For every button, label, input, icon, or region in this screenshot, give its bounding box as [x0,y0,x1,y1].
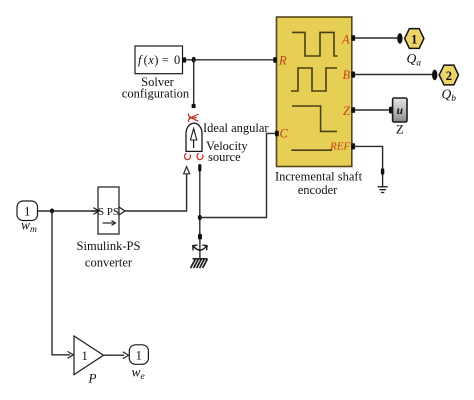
wire A to tag Qa [355,37,397,39]
source bottom right port [198,164,201,171]
svg-text:C: C [280,127,289,141]
wire arrowhead up into source [184,167,190,174]
scope block Z input tab [389,107,393,114]
wire B to tag Qb [355,74,432,76]
svg-text:2: 2 [446,69,452,83]
svg-text:1: 1 [24,204,31,219]
wire arrowhead into gain [68,351,74,358]
source label [203,121,269,164]
svg-text:(: ( [144,53,148,67]
svg-text:converter: converter [85,256,133,270]
wire branch down to gain [52,211,70,355]
wire converter to velocity source signal port [125,174,187,212]
goto tag 1 Qa [405,29,424,69]
output port block we [129,345,148,382]
node junction case net [198,215,202,221]
input port block wm [17,201,38,235]
goto tag 2 Qb [439,65,458,104]
svg-text:A: A [341,33,350,47]
encoder port A [351,35,355,41]
svg-text:Z: Z [343,104,351,118]
svg-text:x: x [147,53,154,67]
encoder port Z [351,107,355,113]
node branch junction [50,208,54,213]
svg-text:u: u [397,105,404,117]
wire REF to ground [355,146,382,168]
solver configuration block U4 [122,46,190,101]
wire Z to scope u [355,109,389,111]
svg-text:configuration: configuration [122,87,190,101]
wire junction to encoder C [200,133,275,217]
tag Qa port oval [397,33,402,44]
node junction solver net [192,57,196,63]
svg-text:Z: Z [396,122,404,137]
svg-text:1: 1 [82,349,88,363]
encoder port REF [351,143,355,149]
svg-text:R: R [278,54,287,68]
encoder port C [275,131,279,137]
svg-text:Ideal angular: Ideal angular [203,121,269,135]
source top port [192,104,196,108]
svg-text:1: 1 [411,32,417,46]
encoder port B [351,72,355,78]
svg-text:): ) [154,53,158,67]
svg-text:Simulink-PS: Simulink-PS [77,239,141,253]
svg-text:P: P [88,371,97,386]
svg-text:S PS: S PS [98,206,119,218]
scope block Z [393,98,407,137]
wire junction down to source top [193,60,195,104]
svg-text:encoder: encoder [298,183,338,197]
Simulink-PS converter U2 [77,187,141,270]
wire solver to encoder R [186,59,273,61]
electrical reference ground [378,175,388,193]
mechanical rotational reference [191,234,208,268]
source rotational port symbol bottom right [197,153,203,159]
wire source case to junction [199,164,201,234]
ground port [381,168,384,175]
gain P [74,336,104,386]
svg-text:1: 1 [136,348,143,363]
incremental shaft encoder U1 [275,17,363,197]
source rotational port symbol bottom left [184,153,190,159]
svg-text:source: source [208,150,241,164]
source rotational port symbol top [188,114,198,122]
wire gain to we [104,354,125,356]
ideal angular velocity source U3 [186,123,202,151]
wire wm to converter [38,210,99,212]
svg-text:B: B [343,68,351,82]
svg-text:Incremental shaft: Incremental shaft [275,170,363,184]
svg-text:REF: REF [329,141,350,153]
encoder port R [273,57,277,63]
wire arrowhead into we [123,352,129,359]
svg-text:0: 0 [174,53,180,67]
tag Qb port oval [432,70,437,81]
svg-text:=: = [162,53,169,67]
solver right port [183,57,186,62]
